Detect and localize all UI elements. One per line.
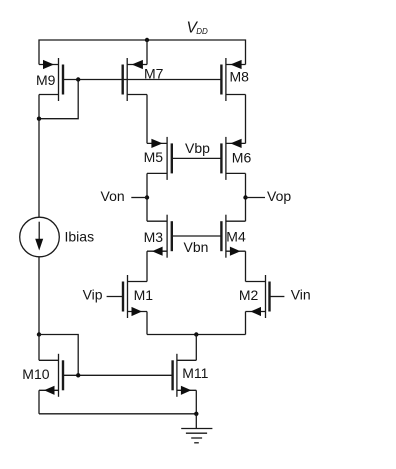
svg-text:Vin: Vin: [291, 287, 311, 303]
wire M7 drain to M5 source: [146, 95, 148, 144]
wire M9/M7/M8 gate bus: [63, 79, 221, 81]
wire M7 source to VDD: [146, 40, 148, 65]
transistor M10: [39, 354, 63, 397]
svg-text:Vbp: Vbp: [185, 140, 210, 156]
ground: [181, 414, 212, 443]
wire Vip stub: [107, 296, 123, 298]
svg-text:M4: M4: [226, 229, 246, 245]
wire M1 source down to tail: [146, 312, 148, 335]
svg-text:M5: M5: [144, 149, 164, 165]
svg-text:M10: M10: [22, 366, 49, 382]
wire M10/M11 gate wire: [63, 374, 173, 376]
wire M5 drain to Von node: [146, 173, 148, 221]
wire M10 diode connection: [39, 335, 78, 376]
node gate bus dot: [76, 77, 80, 81]
svg-text:DD: DD: [196, 27, 208, 36]
node A dot: [37, 117, 41, 121]
svg-text:M11: M11: [182, 365, 208, 381]
wire tail rail: [147, 334, 246, 336]
svg-text:Von: Von: [101, 188, 125, 204]
current source Ibias: [20, 119, 60, 335]
wire M9 diode connection: [39, 80, 78, 119]
node ground dot: [194, 412, 198, 416]
wire M4 source to M2 drain: [245, 251, 247, 281]
transistor M3: [147, 215, 172, 258]
transistor M9: [39, 58, 63, 101]
node VDD/M7 junction dot: [145, 38, 149, 42]
svg-text:M6: M6: [232, 149, 252, 165]
wire Vop stub: [246, 197, 266, 199]
svg-text:M8: M8: [230, 68, 250, 84]
wire tail down to M11 drain: [195, 335, 197, 361]
VDD label: [187, 20, 208, 37]
svg-text:M1: M1: [134, 287, 154, 303]
wire VDD rail: [39, 40, 246, 65]
wire M2 source down to tail: [245, 312, 247, 335]
wire M9 drain down: [38, 95, 40, 119]
wire Vbn gate wire: [172, 235, 222, 237]
wire Vbp gate wire: [172, 157, 222, 159]
wire M8 drain to M6 source: [245, 95, 247, 144]
wire Von stub: [131, 197, 147, 199]
node Von dot: [145, 195, 149, 199]
node tail dot: [194, 332, 198, 336]
transistor M7: [123, 58, 147, 101]
wire M11 source down: [195, 390, 197, 414]
transistor M6: [221, 137, 245, 180]
svg-text:Vbn: Vbn: [184, 239, 209, 255]
transistor M2: [246, 275, 270, 318]
svg-text:Ibias: Ibias: [65, 229, 95, 245]
transistor M4: [221, 215, 245, 258]
node M10 gate dot: [76, 373, 80, 377]
svg-text:Vip: Vip: [83, 287, 103, 303]
wire M3 source to M1 drain: [146, 251, 148, 281]
svg-text:M2: M2: [239, 287, 259, 303]
transistor M8: [221, 58, 245, 101]
svg-text:M3: M3: [144, 229, 164, 245]
node Vop dot: [243, 195, 247, 199]
svg-text:Vop: Vop: [267, 188, 291, 204]
wire Vin stub: [270, 296, 285, 298]
transistor M1: [123, 275, 147, 318]
wire M6 drain to Vop node: [245, 173, 247, 221]
wire M10 source down: [38, 390, 40, 414]
wire ground rail: [39, 413, 196, 415]
transistor M5: [147, 137, 172, 180]
wire node B to M10 drain: [38, 335, 40, 361]
node B dot: [37, 332, 41, 336]
svg-text:M9: M9: [36, 72, 56, 88]
transistor M11: [173, 354, 197, 397]
